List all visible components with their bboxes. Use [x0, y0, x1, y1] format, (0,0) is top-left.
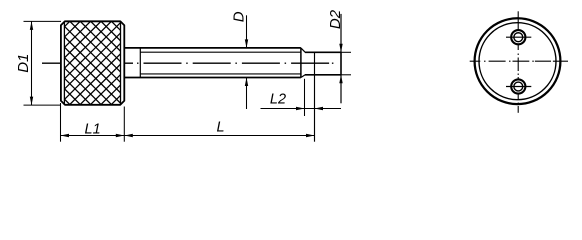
svg-text:L: L [216, 120, 224, 136]
svg-text:L2: L2 [270, 92, 286, 108]
svg-text:D2: D2 [327, 9, 344, 29]
svg-text:D: D [231, 11, 248, 22]
svg-text:L1: L1 [85, 121, 101, 137]
svg-text:D1: D1 [15, 54, 32, 73]
